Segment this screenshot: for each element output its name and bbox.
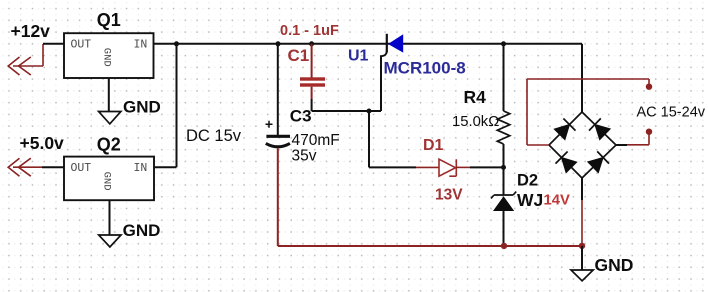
wire C3 to bottom rail <box>277 149 279 247</box>
label GND main <box>595 255 634 275</box>
svg-text:13V: 13V <box>435 186 463 203</box>
regulator Q2 <box>64 157 154 201</box>
terminal arrow +12v <box>8 44 43 75</box>
svg-text:35v: 35v <box>292 147 317 164</box>
svg-text:+5.0v: +5.0v <box>20 133 65 153</box>
bridge diode bottom-left <box>556 152 577 173</box>
label R4 value 15.0k ohm <box>452 114 499 130</box>
node junction bottom rail/ground <box>579 243 585 249</box>
bridge diode bottom-right <box>588 151 609 172</box>
label C1 tolerance 0.1 - 1uF <box>280 23 339 39</box>
diode bridge outline <box>549 112 616 178</box>
label GND Q2 <box>123 221 161 240</box>
svg-text:GND: GND <box>100 48 112 67</box>
svg-text:Q2: Q2 <box>97 134 121 154</box>
svg-text:GND: GND <box>123 221 161 240</box>
ground main <box>571 246 593 281</box>
wire rail to C3 <box>277 44 279 135</box>
regulator Q1 <box>64 33 154 78</box>
bridge diode top-right <box>589 118 610 139</box>
svg-text:Q1: Q1 <box>97 10 121 30</box>
resistor R4 <box>497 44 510 168</box>
svg-text:C3: C3 <box>290 107 312 126</box>
svg-text:+12v: +12v <box>11 21 51 41</box>
node junction rail/C1 <box>309 41 314 46</box>
node junction rail/C3 <box>276 41 281 46</box>
svg-text:IN: IN <box>134 38 148 51</box>
wire bridge bottom to rail <box>581 178 583 243</box>
terminal arrow +5.0v <box>8 158 42 176</box>
terminal AC 2 <box>646 129 652 135</box>
capacitor C3 <box>266 121 291 147</box>
svg-text:DC 15v: DC 15v <box>186 127 242 145</box>
ground Q2 <box>99 200 121 247</box>
wire rail to C1 <box>311 44 313 78</box>
svg-text:OUT: OUT <box>71 38 92 51</box>
label D2 value 14V <box>544 193 570 209</box>
svg-text:15.0kΩ: 15.0kΩ <box>452 114 499 130</box>
node junction rail/Q2 feed <box>174 41 179 46</box>
label C3 value 35v <box>292 147 317 164</box>
svg-text:D1: D1 <box>423 137 444 154</box>
node junction D2/bottom rail <box>501 243 507 249</box>
svg-text:C1: C1 <box>288 46 310 65</box>
svg-text:GND: GND <box>100 172 112 191</box>
svg-text:U1: U1 <box>348 47 369 64</box>
wire gate node down to D1 row <box>369 111 416 167</box>
label C3 value 470mF <box>292 132 340 149</box>
svg-text:MCR100-8: MCR100-8 <box>384 58 466 77</box>
capacitor C1 <box>300 77 325 86</box>
svg-text:IN: IN <box>134 162 148 175</box>
node junction C1/gate/D1 <box>367 109 372 114</box>
label DC 15v <box>186 127 242 145</box>
label Q1 <box>97 10 121 30</box>
terminal AC 1 <box>646 84 652 90</box>
label C3 <box>290 107 312 126</box>
label D1 value 13V <box>435 186 463 203</box>
label +12v <box>11 21 51 41</box>
svg-text:14V: 14V <box>544 193 570 209</box>
wire C1 lower lead <box>312 87 381 111</box>
svg-text:D2: D2 <box>517 172 538 190</box>
label MCR100-8 <box>384 58 466 77</box>
label U1 <box>348 47 369 64</box>
label GND Q1 <box>123 98 161 117</box>
svg-text:OUT: OUT <box>71 162 92 175</box>
label D2 <box>517 172 538 190</box>
wire AC feed left <box>527 79 649 145</box>
svg-text:WJ: WJ <box>517 190 543 210</box>
svg-text:AC 15-24v: AC 15-24v <box>637 105 706 121</box>
op U1 SCR symbol <box>381 34 403 111</box>
wire D1 to R4/D2 node <box>470 166 504 168</box>
label D1 <box>423 137 444 154</box>
svg-text:R4: R4 <box>464 87 487 107</box>
label D2 type WJ <box>517 190 543 210</box>
label C1 <box>288 46 310 65</box>
wire top DC rail <box>154 44 583 112</box>
wire Q1 OUT <box>43 43 64 45</box>
wire AC feed right <box>616 135 649 146</box>
node junction rail/R4 <box>501 41 506 46</box>
wire rail to Q2 IN <box>154 44 177 167</box>
ground Q1 <box>99 78 121 124</box>
svg-text:0.1 - 1uF: 0.1 - 1uF <box>280 23 339 39</box>
wire Q2 OUT <box>42 166 64 168</box>
diode D2 zener <box>491 167 516 243</box>
node junction D1/R4/D2 <box>501 165 506 170</box>
svg-text:GND: GND <box>595 255 634 275</box>
bridge diode top-left <box>554 119 575 140</box>
svg-text:GND: GND <box>123 98 161 117</box>
wire bottom red rail <box>278 245 582 247</box>
label Q2 <box>97 134 121 154</box>
label R4 <box>464 87 487 107</box>
label +5.0v <box>20 133 65 153</box>
label AC 15-24v <box>637 105 706 121</box>
diode D1 <box>416 159 470 176</box>
